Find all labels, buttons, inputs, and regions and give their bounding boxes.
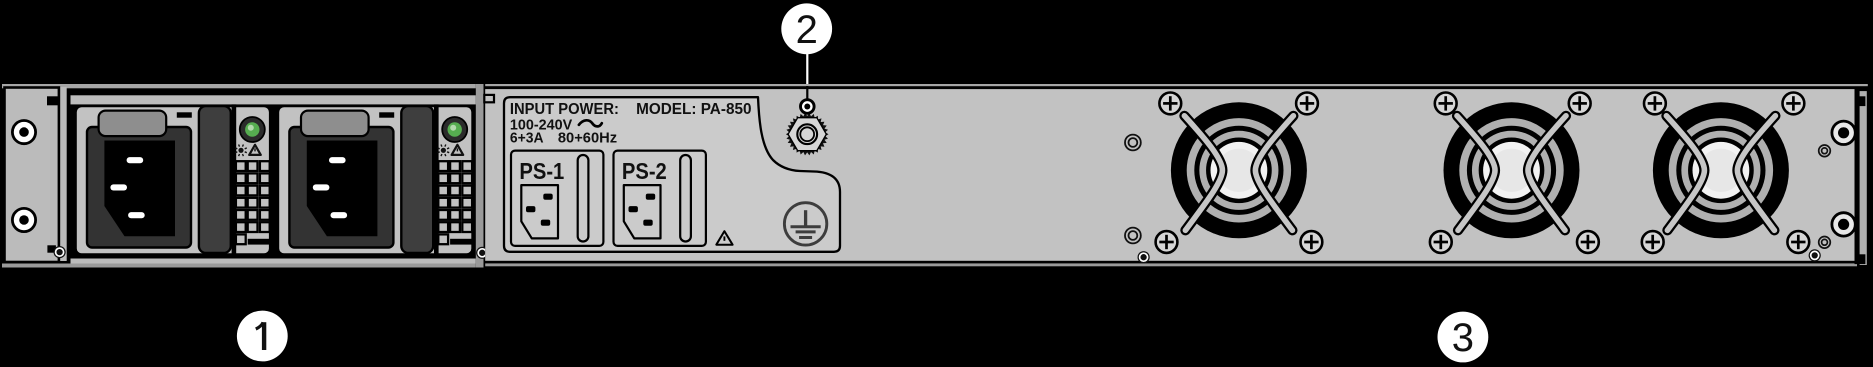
svg-text:80+60Hz: 80+60Hz: [558, 131, 617, 147]
svg-text:INPUT POWER:: INPUT POWER:: [510, 101, 619, 118]
svg-text:PS-2: PS-2: [622, 158, 667, 184]
svg-text:2: 2: [796, 8, 818, 52]
svg-text:MODEL: PA-850: MODEL: PA-850: [636, 101, 751, 118]
svg-text:6+3A: 6+3A: [510, 131, 544, 147]
svg-text:3: 3: [1452, 316, 1474, 360]
svg-text:PS-1: PS-1: [519, 158, 564, 184]
